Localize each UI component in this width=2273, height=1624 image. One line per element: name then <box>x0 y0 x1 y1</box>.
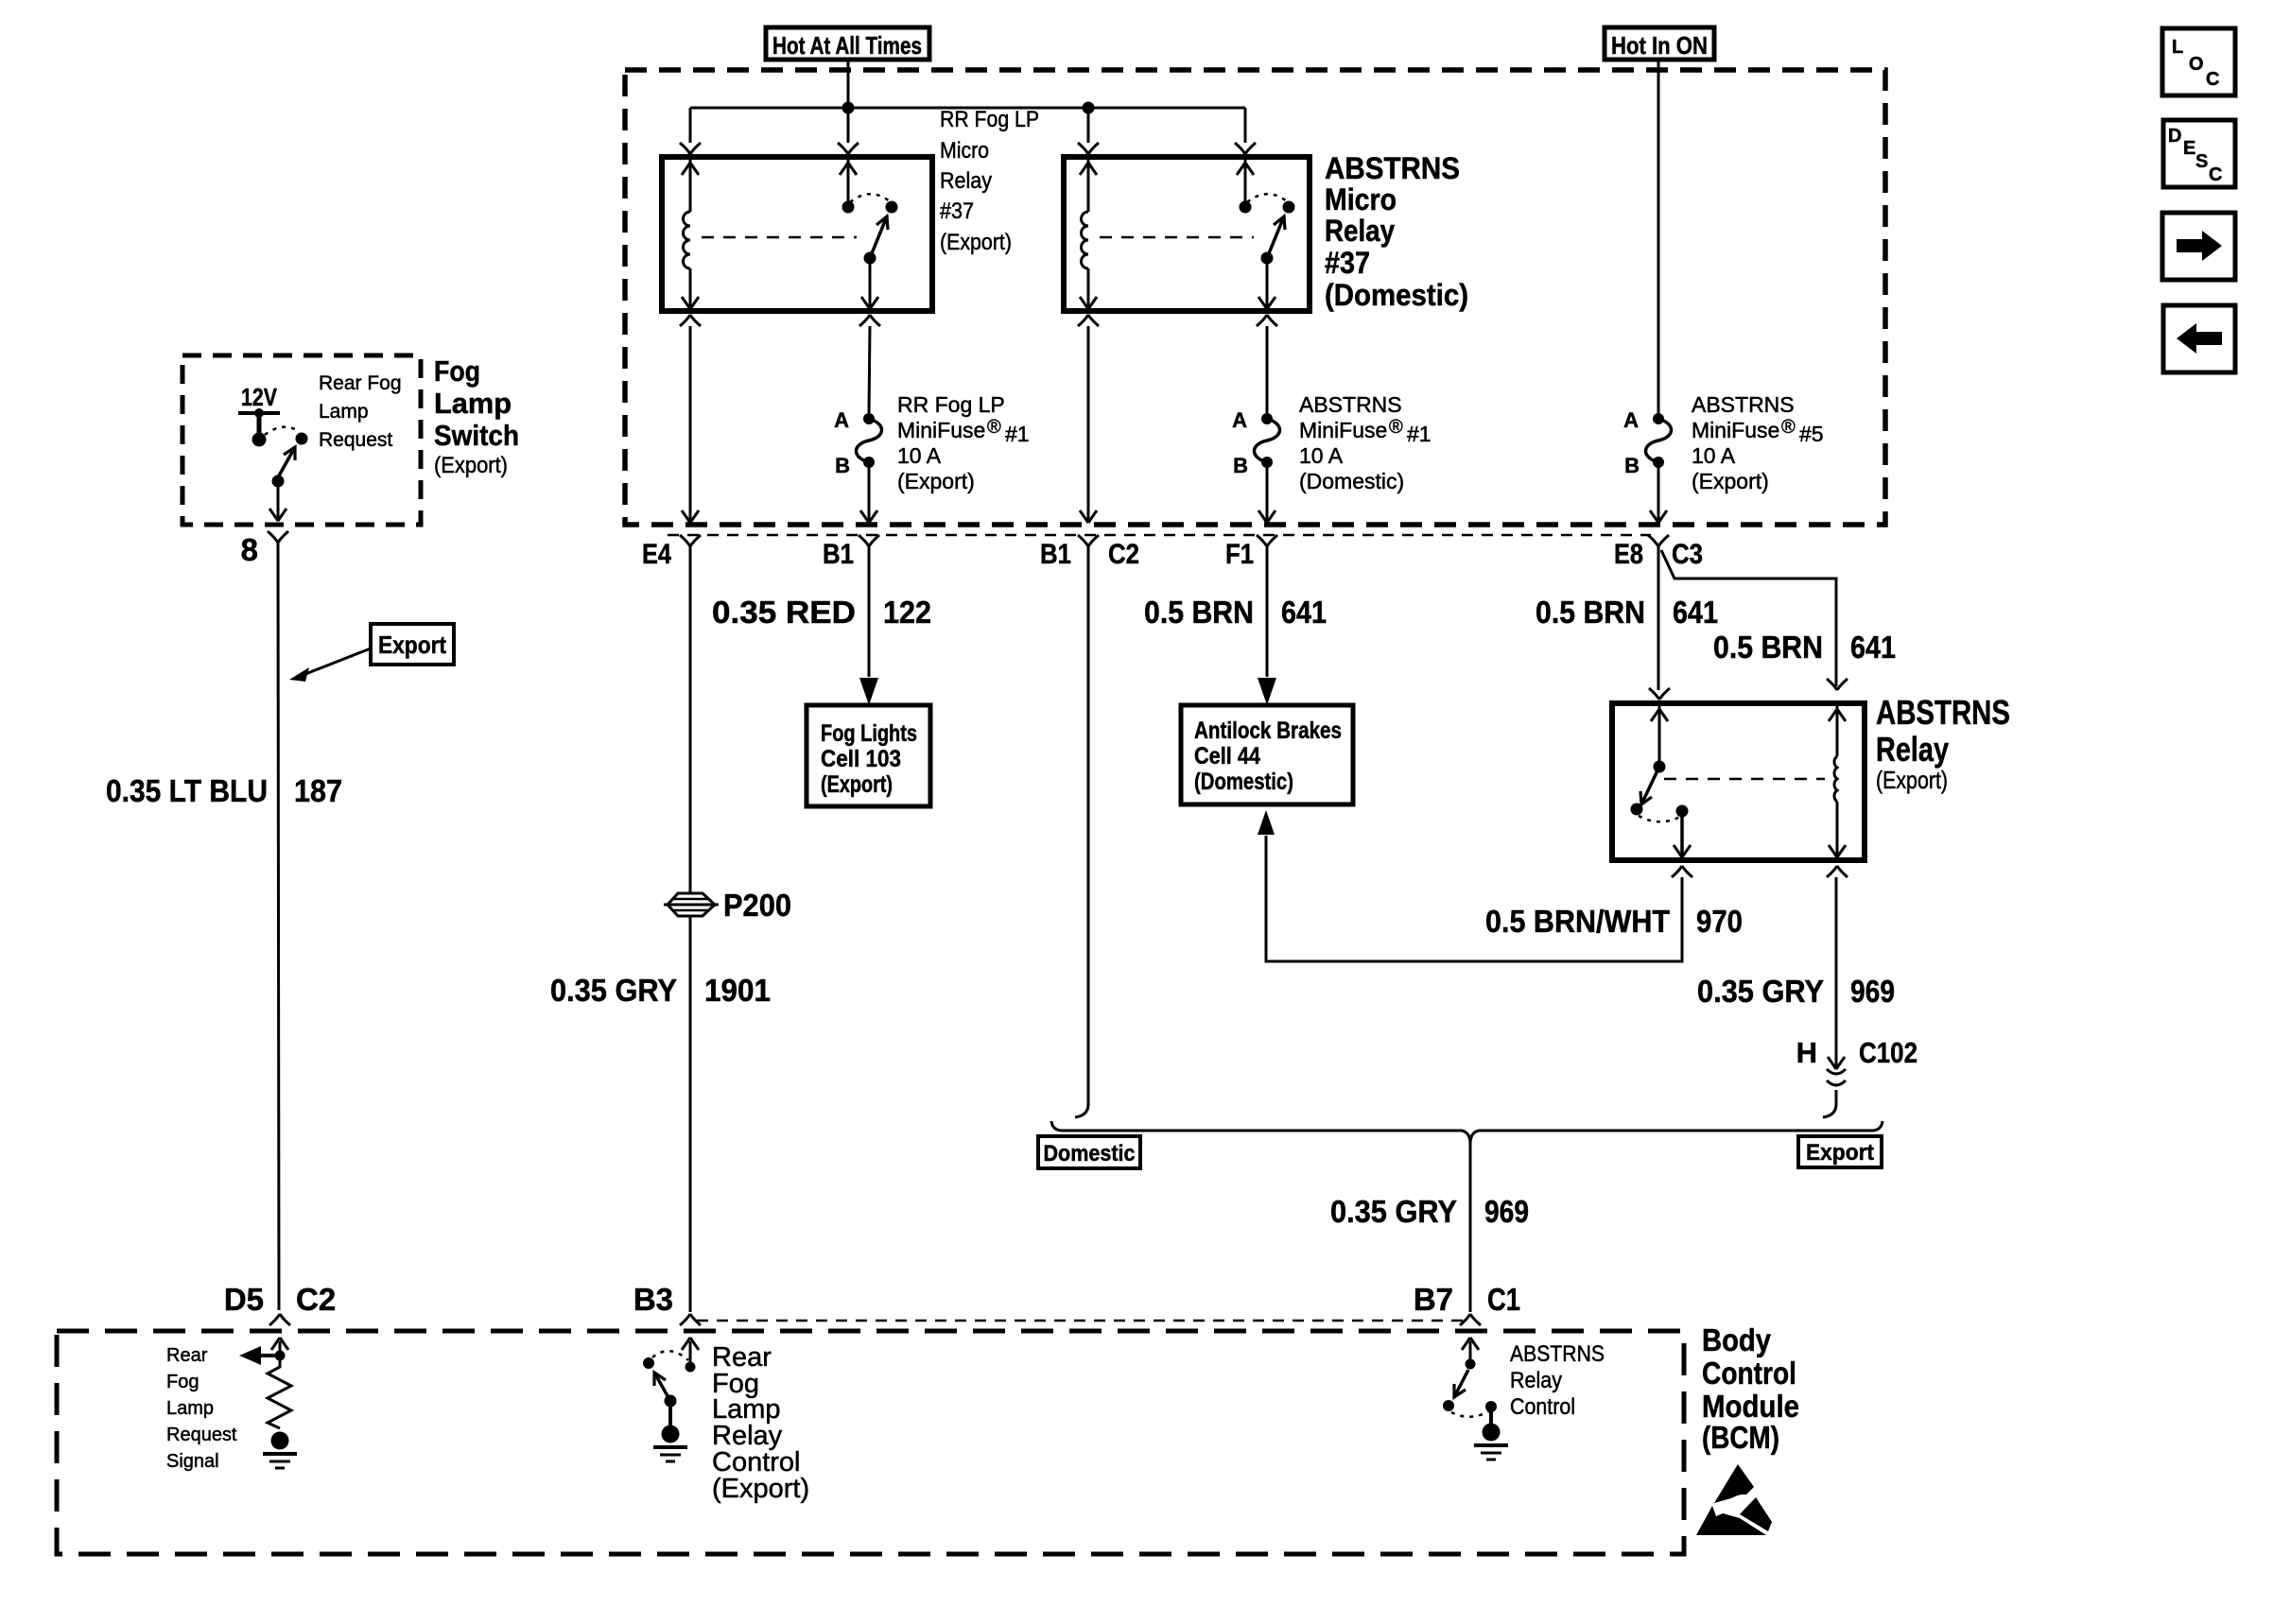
connector pin 8 <box>241 531 288 567</box>
svg-text:F1: F1 <box>1225 539 1254 570</box>
svg-text:ABSTRNS: ABSTRNS <box>1299 392 1402 417</box>
svg-text:(BCM): (BCM) <box>1702 1420 1779 1455</box>
BCM pin label: Rear Fog Lamp Request Signal <box>166 1345 237 1472</box>
svg-text:Relay: Relay <box>1325 214 1395 248</box>
svg-text:H: H <box>1796 1036 1817 1069</box>
svg-text:#5: #5 <box>1799 422 1824 446</box>
svg-text:B: B <box>1233 454 1248 477</box>
option pointer arrow to wire 187 <box>289 648 371 682</box>
svg-text:Signal: Signal <box>166 1451 219 1472</box>
relay K2 coil pin bottom arrow <box>1080 268 1097 309</box>
fuse F3: ABSTRNS MiniFuse #5 10A <box>1646 413 1672 468</box>
module box: Body Control Module BCM dashed <box>57 1331 1684 1554</box>
wire from connector C2 down to Domestic brace <box>1075 546 1088 1117</box>
switch right contact <box>296 433 308 445</box>
svg-text:(Export): (Export) <box>712 1474 809 1504</box>
svg-text:Lamp: Lamp <box>166 1398 214 1419</box>
wire 1901 0.35 GRY upper <box>689 546 692 892</box>
svg-text:Antilock Brakes: Antilock Brakes <box>1194 717 1342 744</box>
svg-text:12V: 12V <box>241 383 278 411</box>
svg-text:(Export): (Export) <box>821 771 893 798</box>
nav box arrow left <box>2163 305 2235 372</box>
svg-text:641: 641 <box>1850 630 1896 665</box>
wire relay K1 output to fuse F1 <box>859 315 880 413</box>
svg-text:0.35 LT BLU: 0.35 LT BLU <box>106 773 268 808</box>
relay K1 box: RR Fog LP Micro Relay #37 (Export) <box>662 157 932 311</box>
splice pass-through P200 <box>664 893 719 916</box>
svg-text:Hot In ON: Hot In ON <box>1611 31 1708 60</box>
svg-text:Fog: Fog <box>434 354 480 388</box>
svg-text:®: ® <box>987 417 1001 438</box>
relay K2 coil pin top arrow <box>1080 157 1097 212</box>
svg-text:10 A: 10 A <box>1299 443 1344 468</box>
svg-text:O: O <box>2189 54 2204 75</box>
svg-text:Control: Control <box>1702 1356 1796 1391</box>
connector B1 fog lamp relay <box>823 535 879 570</box>
underhood fuse block dashed box <box>625 70 1885 525</box>
splice P200 label <box>723 888 791 923</box>
svg-text:B7: B7 <box>1414 1282 1453 1317</box>
wire 641 0.5 BRN jog from C3 to relay coil <box>1661 550 1896 686</box>
svg-text:Module: Module <box>1702 1389 1799 1424</box>
fuse F2 pin B label <box>1233 454 1248 477</box>
BCM pin label: ABSTRNS Relay Control <box>1510 1341 1605 1420</box>
nav box LOC <box>2162 28 2235 95</box>
svg-text:ABSTRNS: ABSTRNS <box>1876 693 2010 732</box>
svg-text:(Export): (Export) <box>1692 469 1769 493</box>
svg-text:Request: Request <box>319 429 392 451</box>
relay K3 contact dotted arc <box>1639 816 1680 821</box>
svg-text:970: 970 <box>1696 904 1743 939</box>
BCM switch dotted arc at B3 <box>652 1351 688 1360</box>
svg-text:Relay: Relay <box>1876 730 1949 769</box>
svg-text:10 A: 10 A <box>1692 443 1736 468</box>
relay K3 switch output pin <box>1674 811 1691 857</box>
option pointer box: Export left <box>371 624 454 665</box>
svg-text:A: A <box>1232 408 1247 432</box>
svg-text:Cell 103: Cell 103 <box>821 746 901 772</box>
wire 122 0.35 RED <box>712 546 931 677</box>
wire bus drop to relay 2 coil pin <box>1078 108 1099 154</box>
svg-text:E8: E8 <box>1614 539 1643 570</box>
connector E8 C3 <box>1614 535 1703 570</box>
wire pivot to ground at B3 <box>668 1401 672 1427</box>
load box: Antilock Brakes Cell 44 (Domestic) <box>1181 705 1353 804</box>
svg-text:0.35 GRY: 0.35 GRY <box>1697 974 1824 1009</box>
switch pin label: Rear Fog Lamp Request <box>319 372 402 451</box>
power flag box: Hot At All Times <box>766 27 929 60</box>
BCM signal tap arrow left <box>239 1346 286 1365</box>
relay K1 movable arm arrow <box>870 216 888 258</box>
BCM input arrow at D5 <box>271 1338 288 1356</box>
svg-text:Relay: Relay <box>940 168 992 194</box>
fuse F1: RR Fog LP MiniFuse #1 10A <box>857 413 882 468</box>
svg-text:Hot At All Times: Hot At All Times <box>772 31 922 60</box>
svg-text:MiniFuse: MiniFuse <box>1299 418 1387 442</box>
wire switch output to box edge <box>269 481 286 521</box>
wire 641 0.5 BRN <box>1144 546 1327 677</box>
wire 187 0.35 LT BLU <box>106 543 342 1310</box>
svg-text:C3: C3 <box>1672 539 1703 570</box>
svg-text:B1: B1 <box>823 539 854 570</box>
relay K1 switch output pin <box>861 252 878 310</box>
BCM switch left contact at B3 <box>643 1357 654 1369</box>
svg-text:(Export): (Export) <box>434 453 508 478</box>
BCM switch arm arrow at B7 <box>1454 1370 1468 1397</box>
svg-text:Fog Lights: Fog Lights <box>821 720 917 747</box>
bus wire battery feed horizontal <box>690 107 1245 110</box>
switch label <box>434 354 519 478</box>
BCM switch top contact at B7 <box>1466 1359 1476 1370</box>
fuse F2: ABSTRNS MiniFuse #1 10A <box>1255 413 1280 468</box>
wire relay K2 coil to connector B1/C2 <box>1078 315 1099 523</box>
fuse F3 pin B label <box>1624 454 1640 477</box>
svg-text:RR Fog LP: RR Fog LP <box>940 107 1039 132</box>
svg-text:Relay: Relay <box>1510 1368 1562 1393</box>
connector D5 C2 <box>224 1282 336 1325</box>
fuse F2 pin A label <box>1232 408 1247 432</box>
svg-text:E4: E4 <box>642 539 671 570</box>
svg-text:0.5 BRN: 0.5 BRN <box>1536 595 1645 630</box>
relay K1 coil pin top arrow <box>682 157 699 212</box>
option label box: Export right <box>1798 1136 1882 1167</box>
svg-text:641: 641 <box>1281 595 1327 630</box>
relay K3 arm pivot contact <box>1631 803 1643 816</box>
wire 1901 0.35 GRY lower <box>550 916 771 1312</box>
svg-text:D5: D5 <box>224 1282 264 1317</box>
svg-text:B: B <box>1624 454 1640 477</box>
svg-text:C: C <box>2209 164 2222 185</box>
svg-text:#37: #37 <box>1325 246 1370 280</box>
svg-text:Cell 44: Cell 44 <box>1194 743 1260 769</box>
svg-text:#37: #37 <box>940 199 974 224</box>
nav box arrow right <box>2162 213 2235 280</box>
fuse F1 value label <box>897 392 1030 493</box>
svg-text:Micro: Micro <box>1325 182 1397 216</box>
svg-text:B: B <box>835 454 850 477</box>
svg-text:0.35 GRY: 0.35 GRY <box>1330 1194 1457 1229</box>
svg-text:Rear Fog: Rear Fog <box>319 372 402 394</box>
svg-text:ABSTRNS: ABSTRNS <box>1510 1341 1605 1367</box>
svg-text:#1: #1 <box>1407 422 1431 446</box>
relay K2 label <box>1325 151 1468 312</box>
svg-text:A: A <box>1623 408 1639 432</box>
BCM switch dotted arc at B7 <box>1451 1411 1489 1417</box>
wire bus drop to relay 1 switch pin <box>838 108 859 154</box>
fuse F2 value label <box>1299 392 1431 493</box>
switch arm pivot <box>272 475 285 488</box>
relay K3 coil-switch dashed link <box>1664 778 1825 781</box>
svg-text:969: 969 <box>1484 1194 1529 1229</box>
relay K3 movable arm arrow <box>1640 767 1659 804</box>
fuse F1 pin A label <box>834 408 849 432</box>
relay K2 coil-switch dashed link <box>1100 236 1254 239</box>
svg-text:8: 8 <box>241 532 258 567</box>
relay K3 switch output contact <box>1676 805 1689 818</box>
wire 969 0.35 GRY <box>1697 866 1895 1069</box>
svg-text:(Domestic): (Domestic) <box>1299 469 1404 493</box>
connector face dashed line C2/C3 <box>668 534 1651 537</box>
ground at B3 <box>653 1425 687 1462</box>
relay K1 contact dotted arc <box>850 194 890 202</box>
svg-text:A: A <box>834 408 849 432</box>
wire contact to ground at B7 <box>1489 1407 1493 1425</box>
svg-text:Lamp: Lamp <box>319 401 369 423</box>
svg-text:Export: Export <box>378 631 446 659</box>
svg-text:Lamp: Lamp <box>434 387 512 420</box>
svg-text:(Domestic): (Domestic) <box>1325 278 1468 312</box>
svg-text:RR Fog LP: RR Fog LP <box>897 392 1005 417</box>
relay K2 contact dotted arc <box>1247 194 1287 202</box>
svg-text:Micro: Micro <box>940 138 989 164</box>
svg-text:Body: Body <box>1702 1322 1772 1357</box>
load box: Fog Lights Cell 103 (Export) <box>807 705 930 806</box>
relay K3 coil winding <box>1834 756 1837 802</box>
svg-text:ABSTRNS: ABSTRNS <box>1692 392 1795 417</box>
svg-text:Domestic: Domestic <box>1044 1141 1136 1166</box>
nav box DESC <box>2163 120 2235 187</box>
svg-text:122: 122 <box>883 595 931 630</box>
svg-text:187: 187 <box>294 773 342 808</box>
svg-text:0.5 BRN/WHT: 0.5 BRN/WHT <box>1485 904 1670 939</box>
connector F1 <box>1225 535 1277 570</box>
wire bus right drop to relay 2 switch pin <box>1235 108 1256 154</box>
svg-text:C102: C102 <box>1859 1036 1917 1069</box>
brace grouping Domestic-Export <box>1051 1121 1883 1144</box>
relay K3 switch common pin <box>1649 688 1670 773</box>
connector B1 C2 <box>1040 535 1139 570</box>
svg-text:(Export): (Export) <box>1876 766 1948 794</box>
svg-text:S: S <box>2195 151 2208 172</box>
svg-text:®: ® <box>1389 417 1403 438</box>
relay K1 switch common pin <box>840 157 857 214</box>
arrow into Antilock Brakes cell <box>1258 678 1276 705</box>
relay K3 box: ABSTRNS Relay (Export) <box>1612 703 1865 860</box>
arrow into Antilock Brakes cell bottom <box>1258 810 1275 835</box>
BCM input arrow at B3 <box>682 1338 699 1362</box>
svg-text:0.5 BRN: 0.5 BRN <box>1144 595 1254 630</box>
svg-text:C1: C1 <box>1487 1282 1520 1317</box>
relay K3 label <box>1876 693 2010 794</box>
wire 969 below C102 with end hook <box>1823 1090 1836 1117</box>
power flag box: Hot In ON <box>1605 27 1714 60</box>
svg-text:Switch: Switch <box>434 419 519 452</box>
svg-text:E: E <box>2183 138 2195 159</box>
svg-text:MiniFuse: MiniFuse <box>897 418 985 442</box>
wire 969 0.35 GRY to BCM <box>1330 1144 1529 1312</box>
BCM switch pivot at B3 <box>665 1395 677 1408</box>
relay K2 switch common pin <box>1237 157 1254 214</box>
fuse F3 value label <box>1692 392 1824 493</box>
fuse F3 pin A label <box>1623 408 1639 432</box>
switch box: Fog Lamp Switch (Export) dashed <box>182 355 421 525</box>
svg-text:1901: 1901 <box>704 973 771 1008</box>
BCM label <box>1702 1322 1799 1455</box>
BCM switch pivot at B7 <box>1443 1400 1454 1411</box>
BCM switch right contact at B3 <box>685 1362 696 1373</box>
svg-text:Export: Export <box>1806 1140 1874 1166</box>
connector B7 C1 <box>1414 1282 1520 1325</box>
relay K2 switch output pin <box>1258 252 1275 310</box>
svg-text:0.5 BRN: 0.5 BRN <box>1713 630 1823 665</box>
relay K2 movable arm arrow <box>1267 216 1285 258</box>
arrow into Fog Lights cell <box>859 678 878 705</box>
ground at D5 resistor <box>263 1432 297 1469</box>
svg-text:C2: C2 <box>296 1282 336 1317</box>
relay K1 coil pin bottom arrow <box>682 268 699 309</box>
relay K1 label <box>940 107 1039 255</box>
svg-text:#1: #1 <box>1005 422 1030 446</box>
connector B3 <box>633 1282 701 1325</box>
svg-text:0.35 RED: 0.35 RED <box>712 595 856 630</box>
wire fuse F2 to connector F1 <box>1258 462 1275 523</box>
svg-text:Fog: Fog <box>166 1372 199 1392</box>
relay K1 coil winding <box>684 212 691 268</box>
svg-text:MiniFuse: MiniFuse <box>1692 418 1779 442</box>
svg-text:Rear: Rear <box>166 1345 208 1366</box>
svg-text:L: L <box>2172 37 2183 58</box>
wire bus left drop to relay 1 coil pin <box>680 108 701 154</box>
svg-text:Control: Control <box>1510 1394 1575 1420</box>
junction dot at ABSTRNS relay feed <box>1083 102 1095 114</box>
BCM switch right contact at B7 <box>1485 1401 1497 1412</box>
svg-text:969: 969 <box>1850 974 1895 1009</box>
svg-text:0.35 GRY: 0.35 GRY <box>550 973 677 1008</box>
12V supply symbol <box>238 383 280 447</box>
connector C102 pin H <box>1796 1036 1917 1085</box>
relay K2 box: ABSTRNS Micro Relay #37 (Domestic) <box>1064 157 1310 311</box>
wire fuse F3 to connector E8 <box>1650 462 1667 523</box>
wire relay K2 output to fuse F2 <box>1257 315 1277 413</box>
relay K3 coil pin top <box>1827 679 1848 756</box>
wire Hot In ON down to fuse F3 <box>1657 60 1660 413</box>
svg-text:B3: B3 <box>633 1282 673 1317</box>
svg-text:P200: P200 <box>723 888 791 923</box>
wire from Hot At All Times flag down to bus <box>847 60 850 109</box>
svg-text:ABSTRNS: ABSTRNS <box>1325 151 1460 185</box>
wire 641 0.5 BRN from E8 to ABSTRNS relay <box>1536 546 1718 690</box>
switch movable arm arrow <box>278 447 295 477</box>
relay K3 coil pin bottom <box>1829 802 1846 857</box>
wire relay K1 coil to connector E4 <box>680 315 701 523</box>
ESD sensitive device symbol <box>1696 1464 1772 1535</box>
relay K2 normally-open contact <box>1283 201 1295 214</box>
svg-text:®: ® <box>1781 417 1796 438</box>
svg-text:D: D <box>2168 126 2181 147</box>
wire 970 0.5 BRN/WHT <box>1266 836 1743 961</box>
svg-text:C2: C2 <box>1108 539 1139 570</box>
relay K2 coil winding <box>1082 212 1089 268</box>
connector face dashed line C1 <box>697 1320 1465 1322</box>
junction dot at Hot At All Times feed <box>842 102 855 114</box>
option label box: Domestic <box>1038 1136 1140 1168</box>
BCM switch arm arrow at B3 <box>654 1373 670 1401</box>
svg-text:B1: B1 <box>1040 539 1071 570</box>
svg-text:Request: Request <box>166 1425 237 1445</box>
svg-text:(Export): (Export) <box>940 230 1012 255</box>
svg-text:(Domestic): (Domestic) <box>1194 769 1293 795</box>
BCM pin label: Rear Fog Lamp Relay Control (Export) <box>712 1342 809 1504</box>
svg-text:(Export): (Export) <box>897 469 975 493</box>
svg-text:C: C <box>2206 69 2219 90</box>
relay K1 normally-open contact <box>886 201 898 214</box>
BCM pull resistor <box>268 1359 291 1428</box>
relay K1 coil-switch dashed link <box>702 236 857 239</box>
BCM input arrow at B7 <box>1462 1338 1479 1359</box>
svg-text:641: 641 <box>1673 595 1718 630</box>
connector E4 <box>642 535 701 570</box>
svg-text:10 A: 10 A <box>897 443 942 468</box>
switch contact dotted arc <box>265 427 300 435</box>
wire fuse F1 to connector B1 <box>860 462 877 523</box>
ground at B7 <box>1474 1424 1508 1460</box>
fuse F1 pin B label <box>835 454 850 477</box>
